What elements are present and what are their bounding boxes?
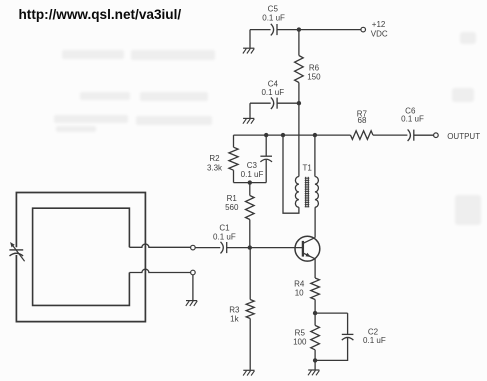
svg-text:C4: C4 [268,79,279,88]
svg-text:R6: R6 [309,64,320,73]
svg-text:560: 560 [225,203,239,212]
svg-text:0.1 uF: 0.1 uF [401,115,424,124]
svg-text:0.1 uF: 0.1 uF [261,88,284,97]
svg-text:VDC: VDC [371,29,388,38]
svg-text:OUTPUT: OUTPUT [447,132,480,141]
svg-text:0.1 uF: 0.1 uF [363,336,386,345]
svg-text:+12: +12 [372,20,386,29]
svg-text:3.3k: 3.3k [207,164,223,173]
svg-text:1k: 1k [230,315,239,324]
svg-text:150: 150 [307,72,321,81]
svg-text:0.1 uF: 0.1 uF [262,13,285,22]
svg-text:100: 100 [293,337,307,346]
svg-text:C2: C2 [368,327,379,336]
svg-text:C3: C3 [247,161,258,170]
svg-text:C1: C1 [219,224,230,233]
svg-text:R3: R3 [229,306,240,315]
svg-text:T1: T1 [303,163,313,172]
svg-text:10: 10 [295,289,304,298]
svg-text:R5: R5 [295,329,306,338]
svg-text:0.1 uF: 0.1 uF [213,233,236,242]
svg-text:http://www.qsl.net/va3iul/: http://www.qsl.net/va3iul/ [19,7,182,22]
svg-text:R2: R2 [209,154,220,163]
svg-text:68: 68 [358,116,367,125]
svg-text:0.1 uF: 0.1 uF [241,170,264,179]
svg-text:C5: C5 [268,5,279,14]
svg-text:R4: R4 [294,280,305,289]
